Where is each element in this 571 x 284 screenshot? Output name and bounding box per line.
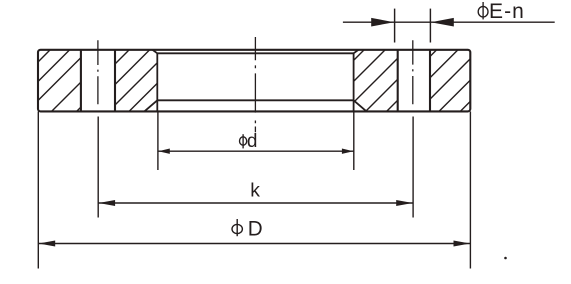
arrow phiD left [39, 241, 56, 247]
arrow phiD right [454, 241, 471, 247]
flange outer section outline [38, 50, 470, 112]
svg-text:k: k [250, 179, 260, 201]
hatch left outer block [38, 50, 50, 62]
extension line k left [97, 117, 99, 218]
arrow phiE right [431, 18, 454, 27]
svg-text:D: D [248, 216, 263, 241]
svg-text:d: d [247, 131, 258, 152]
svg-text:E-n: E-n [489, 0, 524, 23]
arrow phiE left [371, 18, 394, 27]
extension line phiE right [429, 9, 431, 43]
extension line phid right [353, 111, 355, 170]
dimension line phid [158, 150, 354, 152]
bore edge right [353, 53, 355, 112]
label phi symbol of E-n [478, 2, 488, 19]
extension line phiE left [394, 9, 396, 43]
arrow phid right [342, 149, 354, 154]
extension line phiD left [37, 112, 39, 269]
dimension line phiE-n [343, 21, 555, 23]
extension line phid left [157, 111, 159, 170]
dimension line k [98, 202, 413, 204]
centerline left bolt [97, 40, 99, 104]
bore top edge line [157, 52, 353, 54]
dimension line phiD [38, 243, 470, 245]
bore top chamfer right [354, 50, 359, 53]
hatch right outer block [430, 50, 437, 57]
stray dot [504, 257, 507, 260]
arrow k right [396, 200, 413, 206]
centerline right bolt [412, 40, 414, 104]
bore edge left [156, 53, 158, 112]
centerline flange axis [254, 37, 256, 132]
hatch right inner block [354, 50, 365, 61]
bore top chamfer left [153, 50, 158, 53]
label phi symbol of d [240, 134, 247, 148]
extension line k right [412, 117, 414, 218]
hatch left inner block [115, 50, 129, 64]
bore bottom chamfer diagonal left [145, 100, 158, 111]
arrow k left [99, 200, 116, 206]
label phi symbol of D [232, 219, 242, 236]
extension line phiD right [469, 112, 471, 269]
bore bottom chamfer edge line [157, 99, 353, 101]
bolt hole right edges [397, 50, 399, 112]
bolt hole left edges [80, 50, 82, 112]
bore bottom chamfer diagonal right [354, 100, 367, 111]
arrow phid left [158, 149, 170, 154]
